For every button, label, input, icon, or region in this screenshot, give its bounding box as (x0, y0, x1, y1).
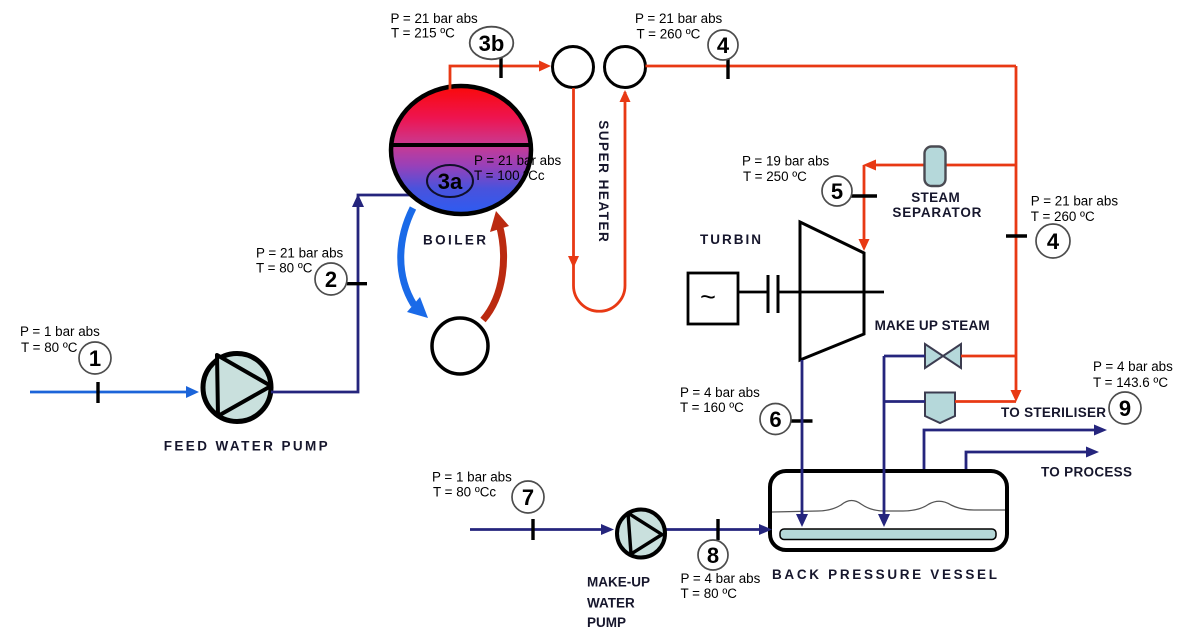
svg-text:4: 4 (717, 33, 730, 58)
svg-text:TURBIN: TURBIN (700, 232, 761, 247)
svg-text:1: 1 (89, 346, 101, 371)
downcomer blue arrow (401, 208, 428, 318)
wire make-up steam down (878, 356, 890, 527)
node 6 (760, 404, 791, 435)
label P/T stream 7 (432, 470, 512, 500)
label P/T stream 4 top (635, 11, 723, 41)
superheater coil (568, 88, 631, 311)
svg-text:P = 21 bar abs: P = 21 bar abs (635, 11, 723, 26)
svg-text:FEED WATER PUMP: FEED WATER PUMP (164, 439, 328, 454)
svg-text:7: 7 (522, 485, 534, 510)
wire steam separator branch (859, 160, 1017, 252)
svg-text:MAKE-UP: MAKE-UP (587, 575, 650, 590)
svg-text:STEAM: STEAM (911, 190, 960, 205)
wire to process blue (966, 447, 1099, 472)
svg-text:P = 4 bar abs: P = 4 bar abs (681, 571, 761, 586)
svg-text:P = 21 bar abs: P = 21 bar abs (1031, 194, 1119, 209)
svg-text:TO PROCESS: TO PROCESS (1041, 465, 1132, 480)
svg-text:9: 9 (1119, 396, 1131, 421)
tick stream 8 (716, 519, 719, 540)
boiler (391, 86, 531, 214)
desuperheater shield (925, 393, 955, 424)
label P/T stream 3b (391, 11, 479, 41)
svg-text:MAKE UP STEAM: MAKE UP STEAM (875, 318, 990, 333)
node 3a (427, 165, 473, 197)
label P/T stream 1 (20, 324, 100, 355)
wire turbine exhaust (796, 360, 808, 527)
svg-text:~: ~ (700, 282, 716, 312)
label P/T stream 2 (256, 246, 344, 276)
tick stream 3b (499, 57, 502, 78)
svg-text:T = 80 ºC: T = 80 ºC (681, 586, 738, 601)
wire superheater to right main (646, 65, 1017, 68)
node 3b (470, 27, 514, 60)
sparge pipe (780, 529, 996, 540)
shaft (738, 291, 768, 294)
make-up steam valve (925, 344, 961, 368)
node 7 (512, 481, 544, 513)
wire to steriliser blue (924, 425, 1107, 472)
steam separator (925, 147, 946, 187)
tick stream 1 (96, 382, 99, 403)
svg-text:P = 21 bar abs: P = 21 bar abs (391, 11, 479, 26)
turbine T1 (800, 222, 864, 360)
tick stream 4 right (1006, 234, 1027, 237)
svg-text:3a: 3a (438, 169, 463, 194)
svg-text:6: 6 (769, 407, 781, 432)
svg-text:P = 1 bar abs: P = 1 bar abs (20, 324, 100, 339)
label P/T stream 8 (681, 571, 761, 601)
label P/T stream 5 (742, 154, 830, 185)
wire right main steam riser (1011, 66, 1022, 402)
svg-text:BOILER: BOILER (423, 233, 486, 248)
svg-text:T = 250 ºC: T = 250 ºC (743, 169, 807, 184)
wire valve red side (961, 355, 1016, 358)
tick stream 2 (347, 282, 367, 285)
tick stream 4 top (726, 58, 729, 79)
coupling (768, 275, 778, 313)
tick stream 5 (851, 194, 877, 197)
back pressure vessel (770, 471, 1007, 550)
feed water pump P1 (203, 354, 271, 422)
svg-text:PUMP: PUMP (587, 615, 626, 630)
superheater drum circles (553, 47, 646, 88)
svg-text:P = 19 bar abs: P = 19 bar abs (742, 154, 830, 169)
svg-text:P = 21 bar abs: P = 21 bar abs (474, 153, 562, 168)
wire feed water inlet (30, 386, 199, 398)
water level wave (772, 500, 1005, 512)
svg-text:4: 4 (1047, 229, 1060, 254)
node 4 right (1036, 224, 1070, 258)
wire valve blue side (884, 355, 925, 358)
svg-text:3b: 3b (479, 31, 505, 56)
label P/T stream 3a (474, 153, 562, 183)
label STEAM SEPARATOR (892, 190, 981, 220)
svg-text:T = 100 ºCc: T = 100 ºCc (474, 168, 545, 183)
svg-text:T = 80 ºCc: T = 80 ºCc (433, 485, 496, 500)
tick stream 6 (792, 419, 813, 422)
node 9 (1109, 392, 1141, 424)
svg-text:T = 260 ºC: T = 260 ºC (637, 26, 701, 41)
svg-text:TO STERILISER: TO STERILISER (1001, 405, 1106, 420)
svg-text:P = 4 bar abs: P = 4 bar abs (1093, 359, 1173, 374)
svg-text:T = 160 ºC: T = 160 ºC (680, 400, 744, 415)
svg-text:T = 260 ºC: T = 260 ºC (1031, 209, 1095, 224)
label P/T stream 9 (1093, 359, 1173, 390)
node 4 top (708, 30, 738, 60)
furnace circle (432, 318, 488, 374)
svg-text:WATER: WATER (587, 596, 635, 611)
wire boiler steam to superheater (450, 61, 551, 91)
tick stream 7 (531, 519, 534, 540)
make-up water pump P2 (617, 510, 665, 558)
svg-text:BACK PRESSURE VESSEL: BACK PRESSURE VESSEL (772, 567, 997, 582)
wire shield blue side (884, 400, 925, 403)
svg-text:T = 143.6 ºC: T = 143.6 ºC (1093, 375, 1168, 390)
svg-text:SUPER HEATER: SUPER HEATER (596, 120, 611, 242)
svg-text:T = 80 ºC: T = 80 ºC (256, 261, 313, 276)
node 2 (315, 263, 347, 295)
riser red arrow (483, 211, 509, 320)
generator G (688, 273, 738, 324)
svg-text:5: 5 (831, 179, 843, 204)
svg-text:SEPARATOR: SEPARATOR (892, 205, 981, 220)
node 8 (698, 540, 728, 570)
node 1 (79, 342, 111, 374)
svg-text:2: 2 (325, 267, 337, 292)
label P/T stream 4 right (1031, 194, 1119, 225)
svg-text:P = 21 bar abs: P = 21 bar abs (256, 246, 344, 261)
svg-text:8: 8 (707, 543, 719, 568)
svg-text:P = 4 bar abs: P = 4 bar abs (680, 385, 760, 400)
wire make-up water inlet (470, 524, 614, 535)
wire shield red side (955, 400, 1016, 403)
wire pump to vessel (665, 524, 772, 535)
node 5 (822, 176, 852, 206)
label P/T stream 6 (680, 385, 760, 415)
wire pump to boiler (271, 194, 410, 392)
svg-text:P = 1 bar abs: P = 1 bar abs (432, 470, 512, 485)
svg-text:T = 80 ºC: T = 80 ºC (21, 340, 78, 355)
svg-text:T = 215 ºC: T = 215 ºC (391, 26, 455, 41)
label MAKE-UP WATER PUMP (587, 575, 650, 630)
